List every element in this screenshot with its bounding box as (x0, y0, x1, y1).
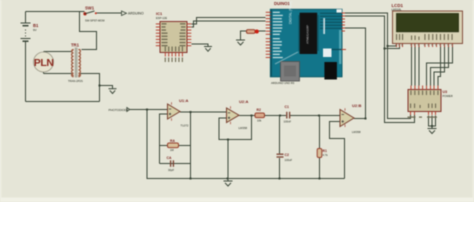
capacitor C2 (277, 154, 284, 157)
arduino USB inner (284, 66, 296, 77)
IC1 ESP module body (160, 22, 187, 53)
svg-text:PHOTODIODE: PHOTODIODE (109, 108, 129, 112)
junction U1A output (190, 111, 192, 113)
junction U1A fb rail (190, 178, 192, 180)
bottom white strip (0, 198, 474, 203)
ground U2A plus (main ground) (224, 179, 233, 187)
wire arduino pin1 to U3 in (345, 13, 411, 119)
ground U3 (428, 129, 437, 134)
IC1 right pins (187, 24, 191, 46)
svg-text:100nF: 100nF (284, 120, 292, 124)
junction R1 rail (319, 178, 321, 180)
svg-text:ATMEGA328P: ATMEGA328P (306, 25, 310, 44)
wire LCD RW down to U3 (414, 44, 416, 86)
wire SW1 branch down (80, 12, 97, 50)
wire LCD D6 to U3 (431, 44, 449, 86)
wire CA row (160, 163, 191, 165)
arduino left pin stubs (266, 12, 271, 57)
U3 bottom pin names (410, 104, 436, 109)
wire top horizontal battery to SW1 (26, 11, 85, 13)
wire U1A output to U2A (180, 111, 227, 113)
junction VSS hook (387, 45, 389, 47)
svg-text:LM358: LM358 (239, 126, 248, 130)
svg-text:9V: 9V (33, 28, 37, 32)
arduino DUINO1 board (270, 9, 342, 77)
LCD1 pin numbers (395, 44, 452, 45)
left edge light strip (0, 0, 1, 202)
junction U2A gnd stub top (227, 139, 229, 141)
junction C2 rail (279, 178, 281, 180)
resistor reset pull (247, 30, 256, 34)
svg-text:R1: R1 (323, 149, 327, 153)
arduino left pin labels white (273, 12, 283, 59)
arduino right pin stubs (342, 13, 347, 50)
arduino ATMEGA chip (300, 13, 318, 54)
wire input node down to rail (146, 110, 148, 179)
wire SW1 to ARDUINO tag (97, 12, 122, 14)
wire R2 to C1 (265, 114, 287, 116)
wire LCD RS down to U3 (411, 44, 413, 86)
svg-text:RA: RA (170, 139, 175, 143)
wire U2B output (354, 118, 366, 120)
LCD1 module body (393, 11, 463, 44)
ground IC1 (204, 47, 212, 52)
wire C2 vertical top (279, 115, 281, 153)
junction U3 gnd (431, 125, 433, 127)
wire R1 vertical bottom (319, 157, 321, 179)
transformer TR1 (72, 50, 81, 77)
LCD1 pin stubs (397, 44, 453, 48)
arduino power jack (324, 62, 337, 80)
junction C2 tap (279, 115, 281, 117)
wire resistor to ground (241, 31, 247, 40)
wire battery bottom vertical (25, 41, 27, 102)
svg-text:DIGITAL (PWM): DIGITAL (PWM) (289, 1, 293, 24)
arduino header row lower (331, 49, 342, 51)
resistor R2 (255, 113, 265, 118)
junction photodiode node (146, 109, 148, 111)
svg-text:PLN: PLN (34, 57, 54, 69)
wire U2A out to R2 (239, 114, 255, 116)
svg-text:IC1: IC1 (156, 11, 163, 16)
wire RA row (160, 145, 191, 147)
svg-text:LM016L: LM016L (392, 8, 403, 12)
AC source PLN (34, 52, 54, 72)
svg-text:TRAN-2P2S: TRAN-2P2S (68, 79, 83, 83)
svg-text:4.7k: 4.7k (323, 153, 329, 157)
svg-text:U2:B: U2:B (352, 103, 361, 108)
wire LCD E down to U3 (418, 44, 420, 86)
IC1 pin name text right (180, 23, 186, 46)
wire PLN top stub (43, 52, 45, 54)
svg-text:U1:A: U1:A (179, 98, 188, 103)
svg-text:ARDUINO: ARDUINO (128, 12, 144, 16)
junction TR1 ground branch (99, 85, 101, 87)
wire U1A feedback vertical (190, 112, 192, 179)
capacitor CA (171, 160, 174, 167)
LCD1 screen (397, 14, 459, 32)
svg-text:TL072: TL072 (181, 124, 189, 128)
wire PLN top to primary (44, 51, 72, 53)
svg-text:100uF: 100uF (285, 158, 293, 162)
resistor R1 (317, 149, 322, 158)
svg-text:R2: R2 (257, 108, 261, 112)
svg-text:U2:A: U2:A (239, 99, 248, 104)
wire LCD VEE stub (402, 44, 404, 47)
LED red indicator (255, 30, 259, 34)
wire U1A plus stub (160, 114, 168, 164)
arduino left edge line (271, 10, 272, 77)
LCD1 pin name marks (396, 34, 453, 40)
IC1 left pins (156, 24, 160, 46)
wire arduino A0 to U2B out (345, 28, 366, 119)
wire ground rail bottom (147, 178, 345, 180)
svg-text:POWER: POWER (443, 94, 453, 98)
wire battery top vertical (25, 12, 27, 24)
arduino USB connector (281, 62, 300, 82)
junction U2B out A0 (365, 118, 367, 120)
wire IC1 gnd pin (191, 44, 208, 47)
wire LCD D4 to U3 (438, 44, 441, 86)
IC1 pin name text left (162, 23, 168, 46)
wire U2A plus feedback box (219, 115, 252, 139)
arduino silk diagonal (275, 52, 298, 64)
wire ground branch TR1 (100, 86, 113, 89)
IC1 bottom pin names inside (165, 47, 183, 52)
arduino right header rows (320, 13, 342, 28)
IC1 bottom pins (165, 53, 182, 57)
terminal tag PHOTODIODE (109, 108, 130, 112)
svg-text:CA: CA (167, 156, 172, 160)
wire PLN bottom to primary (44, 73, 72, 75)
terminal tag ARDUINO (122, 11, 144, 16)
svg-text:C1: C1 (285, 105, 289, 109)
junction VDD hook (384, 48, 386, 50)
junction R1 tap (318, 115, 320, 117)
op-amp U2:B (340, 108, 354, 127)
wire photodiode input (130, 108, 168, 110)
wire arduino reset to resistor (259, 30, 266, 32)
resistor RA (168, 143, 179, 148)
svg-text:ARDUINO UNO R3: ARDUINO UNO R3 (271, 81, 295, 85)
svg-text:ESP-12E: ESP-12E (156, 16, 167, 20)
battery B1 (21, 23, 31, 41)
arduino chip pins (299, 15, 318, 51)
svg-text:30pF: 30pF (168, 168, 174, 172)
wire secondary bottom (81, 74, 100, 102)
op-amp U2:A (227, 106, 240, 124)
svg-text:LM358: LM358 (352, 130, 361, 134)
wire LCD D5 to U3 (434, 44, 445, 86)
wire LCD D7 to U3 (427, 44, 453, 86)
svg-text:U3: U3 (443, 90, 448, 94)
wire PLN bottom stub (43, 71, 45, 74)
arduino right edge light strip (339, 30, 342, 64)
U3 bottom pin stubs (411, 112, 436, 116)
wire IC1 TXD to arduino RX (191, 18, 265, 25)
junction U2A output fb (251, 114, 253, 116)
transformer core (75, 48, 76, 78)
wire U3 gnd stub (431, 116, 433, 129)
svg-text:C2: C2 (285, 153, 289, 157)
capacitor C1 (287, 112, 290, 119)
arduino ICSP white box (323, 49, 332, 58)
switch SW1 (83, 11, 97, 16)
U3 top pin stubs (411, 86, 438, 90)
wire U3 out pins join (429, 116, 436, 127)
U3 top pin names (410, 91, 438, 96)
wire C1 to U2B (290, 114, 340, 116)
wire R1 vertical top (319, 115, 321, 148)
arduino white corner block (337, 9, 342, 12)
wire U2A gnd stub (227, 140, 229, 179)
wire U2B plus feedback box (330, 122, 345, 179)
U3 below-pin labels (408, 117, 438, 118)
svg-text:SW-SPST-MOM: SW-SPST-MOM (85, 18, 105, 22)
wire LCD VDD hook (385, 44, 400, 49)
wire arduino pin2 to U3 in2 (345, 16, 415, 123)
svg-text:10k: 10k (257, 119, 262, 123)
U3 power module body (408, 90, 441, 112)
ground TR1 secondary (109, 89, 117, 94)
wire LCD VSS hook (388, 44, 397, 47)
arduino white silk streak (323, 18, 325, 34)
right edge light strip (473, 0, 474, 202)
svg-text:TR1: TR1 (71, 43, 80, 48)
ground reset resistor (236, 40, 245, 45)
IC1 bottom pin numbers below (165, 58, 183, 63)
wire C2 vertical bottom (279, 158, 281, 179)
op-amp U1:A (168, 102, 181, 121)
junction main ground (227, 178, 229, 180)
svg-text:SW1: SW1 (85, 5, 95, 10)
wire IC1 RXD to arduino TX (191, 21, 265, 27)
wire bottom horizontal left loop (26, 101, 100, 103)
